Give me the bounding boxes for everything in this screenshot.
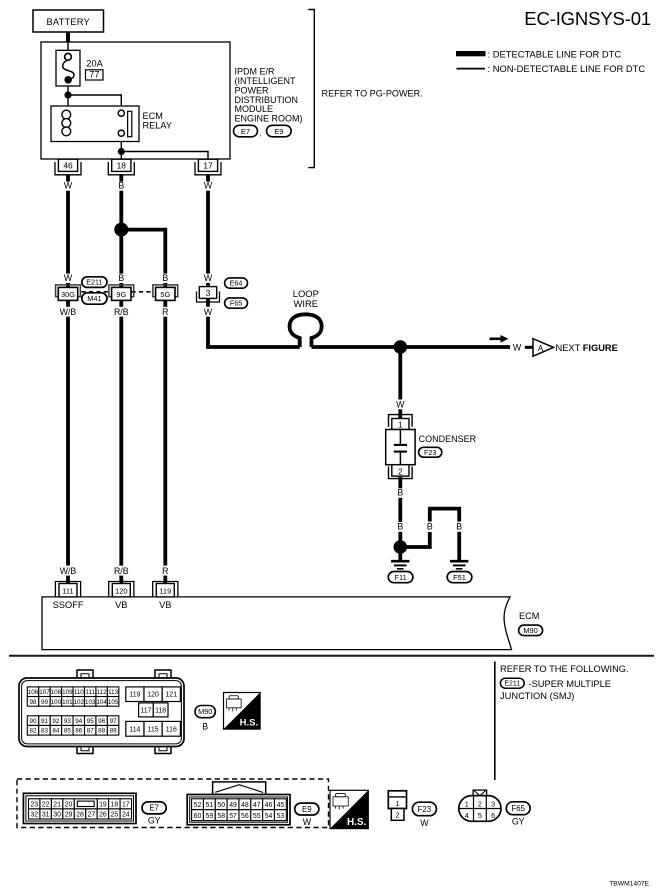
figure reference triangle A — [533, 339, 554, 357]
ground F11 — [391, 561, 409, 569]
wire B pin18 to junction — [119, 175, 123, 182]
svg-text:1: 1 — [395, 801, 399, 808]
svg-text:W/B: W/B — [60, 566, 77, 576]
svg-text:W: W — [396, 399, 405, 409]
svg-text:105: 105 — [108, 699, 119, 706]
wire B branch to ground F51 — [404, 532, 430, 547]
svg-text:55: 55 — [253, 813, 261, 820]
svg-text:B: B — [202, 722, 208, 732]
svg-text:31: 31 — [42, 812, 50, 819]
svg-text:A: A — [538, 344, 544, 353]
svg-text:WIRE: WIRE — [294, 298, 318, 309]
svg-text:95: 95 — [87, 718, 95, 725]
svg-text:B: B — [427, 521, 433, 531]
svg-text:100: 100 — [51, 699, 62, 706]
svg-text:120: 120 — [115, 586, 128, 595]
dashed connector group box — [17, 779, 329, 828]
svg-text:W: W — [420, 818, 429, 828]
svg-text:60: 60 — [194, 813, 202, 820]
svg-text:119: 119 — [159, 586, 171, 595]
svg-text:57: 57 — [229, 813, 237, 820]
svg-text:83: 83 — [41, 728, 49, 735]
svg-text:109: 109 — [62, 689, 73, 696]
wire B condenser pin2 to ground junction — [398, 477, 402, 488]
svg-text:E7: E7 — [149, 804, 159, 813]
connector ref F23 pinout — [412, 802, 436, 816]
svg-text:104: 104 — [96, 699, 107, 706]
svg-text:111: 111 — [62, 586, 73, 595]
connector ref E7 pinout — [142, 802, 166, 814]
svg-text:GY: GY — [512, 817, 525, 827]
svg-text:25: 25 — [111, 812, 119, 819]
view mark H.S. — [330, 790, 368, 828]
svg-text:RELAY: RELAY — [143, 120, 172, 130]
condenser pin 2 — [389, 465, 413, 479]
svg-text:20A: 20A — [86, 58, 103, 68]
svg-text:F65: F65 — [511, 804, 525, 813]
connector terminal 3 — [197, 287, 220, 302]
arrow to next figure — [490, 335, 509, 343]
wire B branch junction to SMJ 5G — [121, 230, 165, 274]
wire R 5G to ECM pin 119 — [163, 317, 167, 566]
wire W/B 30G to ECM pin 111 — [66, 317, 70, 566]
connector E9 pinout — [187, 782, 290, 825]
svg-text:F23: F23 — [424, 448, 436, 457]
svg-text:87: 87 — [87, 728, 95, 735]
svg-text:: NON-DETECTABLE LINE FOR DTC: : NON-DETECTABLE LINE FOR DTC — [488, 63, 646, 74]
ECM connector M90 pinout — [19, 670, 184, 754]
connector ref E64 — [225, 278, 248, 288]
svg-text:84: 84 — [52, 728, 60, 735]
svg-text:22: 22 — [42, 802, 50, 809]
svg-text:88: 88 — [98, 728, 106, 735]
condenser F23 body — [386, 430, 415, 465]
svg-text:B: B — [397, 487, 403, 497]
svg-text:30: 30 — [53, 812, 61, 819]
svg-text:-SUPER MULTIPLE: -SUPER MULTIPLE — [529, 679, 611, 689]
svg-text:59: 59 — [206, 813, 214, 820]
legend detectable line sample — [456, 51, 486, 56]
SMJ connector 9G — [109, 285, 134, 301]
svg-text:BATTERY: BATTERY — [46, 17, 89, 27]
svg-text:26: 26 — [99, 812, 107, 819]
svg-text:1: 1 — [465, 799, 469, 808]
fuse 20A 77 — [56, 50, 80, 86]
svg-text:W: W — [513, 343, 522, 353]
svg-text:9G: 9G — [116, 290, 126, 299]
wire W junction to condenser pin1 — [398, 353, 402, 399]
svg-text:W: W — [204, 273, 213, 283]
column divider — [494, 662, 496, 781]
connector stub to figure A — [525, 346, 533, 349]
svg-text:TBWM1407E: TBWM1407E — [609, 880, 649, 887]
svg-text:W: W — [303, 817, 312, 827]
battery — [33, 10, 104, 32]
svg-text:112: 112 — [97, 689, 108, 696]
svg-text:REFER TO PG-POWER.: REFER TO PG-POWER. — [322, 88, 423, 98]
junction node above ground F11 — [394, 540, 408, 554]
svg-text:18: 18 — [111, 802, 119, 809]
svg-text:W: W — [204, 307, 213, 317]
connector ref E211 — [82, 277, 107, 288]
IPDM E/R box — [41, 42, 230, 159]
svg-text:82: 82 — [30, 728, 38, 735]
connector E7 pinout — [23, 793, 136, 823]
svg-text:B: B — [397, 521, 403, 531]
svg-text:99: 99 — [41, 699, 49, 706]
svg-text:2: 2 — [398, 467, 403, 476]
svg-text:92: 92 — [52, 718, 60, 725]
svg-text:M90: M90 — [523, 626, 537, 635]
junction node below fuse — [64, 91, 71, 98]
svg-text:45: 45 — [277, 802, 285, 809]
svg-text:H.S.: H.S. — [240, 718, 258, 729]
svg-text:F23: F23 — [418, 805, 431, 814]
svg-text:B: B — [118, 273, 124, 283]
svg-text:48: 48 — [241, 802, 249, 809]
svg-text:32: 32 — [30, 812, 38, 819]
svg-text:R/B: R/B — [114, 307, 129, 317]
svg-text:97: 97 — [110, 718, 118, 725]
svg-text:119: 119 — [129, 692, 140, 699]
svg-text:E211: E211 — [504, 681, 520, 688]
wire W pin17 down — [206, 175, 210, 182]
svg-text:56: 56 — [241, 813, 249, 820]
SMJ connector 5G — [153, 285, 178, 301]
svg-text:107: 107 — [39, 689, 50, 696]
wire W battery to IPDM — [66, 32, 70, 43]
svg-text:94: 94 — [75, 718, 83, 725]
loop wire symbol — [290, 314, 322, 347]
svg-text:93: 93 — [64, 718, 72, 725]
svg-text:103: 103 — [85, 699, 96, 706]
svg-text:106: 106 — [28, 689, 39, 696]
svg-text:118: 118 — [155, 707, 166, 714]
svg-text:5G: 5G — [160, 290, 170, 299]
connector terminal 46 — [55, 159, 81, 175]
svg-text:2: 2 — [478, 799, 482, 808]
svg-text:W: W — [64, 273, 73, 283]
svg-text:51: 51 — [206, 802, 214, 809]
connector ref F65 — [225, 298, 248, 308]
svg-text:E64: E64 — [230, 279, 243, 288]
connector ref E7 — [234, 125, 258, 137]
svg-text:86: 86 — [75, 728, 83, 735]
svg-text:120: 120 — [147, 692, 159, 699]
connector F65 pinout — [459, 790, 501, 821]
svg-text:W/B: W/B — [60, 307, 77, 317]
separator line — [9, 655, 654, 657]
svg-text:115: 115 — [148, 726, 159, 733]
connector terminal 18 — [108, 159, 134, 175]
wire W pin46 to SMJ 30G — [66, 175, 70, 182]
svg-text:,: , — [260, 128, 262, 138]
svg-text:M90: M90 — [198, 707, 212, 716]
connector ref E9 pinout — [295, 803, 319, 815]
junction node on wire B — [114, 223, 128, 237]
svg-text:90: 90 — [30, 718, 38, 725]
junction node to condenser — [394, 340, 408, 354]
svg-text:17: 17 — [203, 161, 213, 171]
svg-text:46: 46 — [63, 161, 73, 171]
svg-text:NEXT FIGURE: NEXT FIGURE — [556, 343, 618, 353]
svg-text:F11: F11 — [395, 573, 407, 582]
connector ref E211 SMJ note — [500, 678, 524, 688]
svg-text:21: 21 — [53, 802, 61, 809]
legend non-detectable line sample — [457, 68, 486, 70]
svg-text:1: 1 — [398, 420, 403, 429]
connector ref E9 — [267, 125, 292, 137]
svg-text:EC-IGNSYS-01: EC-IGNSYS-01 — [524, 8, 651, 29]
svg-text:18: 18 — [117, 161, 127, 171]
svg-text:R: R — [162, 307, 168, 317]
svg-text:REFER TO THE FOLLOWING.: REFER TO THE FOLLOWING. — [500, 664, 629, 674]
svg-text:116: 116 — [166, 726, 177, 733]
wire B junction to ground F11 — [398, 553, 402, 561]
svg-text:49: 49 — [229, 802, 237, 809]
svg-text:B: B — [162, 273, 168, 283]
svg-text:F51: F51 — [453, 573, 466, 582]
svg-text:SSOFF: SSOFF — [53, 600, 84, 610]
svg-text:110: 110 — [74, 689, 85, 696]
fuse number 77 — [86, 70, 104, 80]
junction node below relay contact — [118, 148, 125, 155]
condenser pin 1 — [389, 415, 413, 430]
svg-text:19: 19 — [99, 802, 107, 809]
ECM box — [42, 597, 512, 650]
svg-text:20: 20 — [65, 802, 73, 809]
svg-text:27: 27 — [88, 812, 96, 819]
svg-text:113: 113 — [108, 689, 119, 696]
svg-text:E9: E9 — [274, 127, 283, 136]
svg-text:54: 54 — [265, 813, 273, 820]
svg-text:30G: 30G — [61, 290, 75, 299]
svg-text:2: 2 — [396, 812, 400, 819]
svg-text:H.S.: H.S. — [347, 817, 367, 828]
svg-text:6: 6 — [491, 811, 495, 820]
svg-text:5: 5 — [478, 811, 482, 820]
svg-text:77: 77 — [89, 70, 99, 80]
svg-text:: DETECTABLE LINE FOR DTC: : DETECTABLE LINE FOR DTC — [488, 48, 622, 59]
svg-text:98: 98 — [30, 699, 38, 706]
svg-text:F65: F65 — [230, 299, 242, 308]
connector terminal 111 — [55, 582, 80, 597]
ground ref F11 — [388, 572, 413, 583]
wire W connector3 to loop horizontal run — [208, 317, 300, 347]
connector ref M90 — [519, 625, 543, 636]
svg-text:W: W — [64, 181, 73, 191]
svg-text:85: 85 — [64, 728, 72, 735]
connector terminal 120 — [109, 582, 134, 597]
svg-text:B: B — [456, 521, 462, 531]
svg-text:E211: E211 — [86, 278, 102, 287]
svg-text:53: 53 — [277, 813, 285, 820]
svg-text:28: 28 — [76, 812, 84, 819]
svg-text:47: 47 — [253, 802, 261, 809]
svg-text:3: 3 — [491, 799, 495, 808]
svg-text:108: 108 — [51, 689, 62, 696]
svg-text:102: 102 — [74, 699, 85, 706]
svg-text:E7: E7 — [241, 127, 250, 136]
connector ref M90 pinout — [195, 706, 215, 718]
svg-text:ECM: ECM — [519, 611, 539, 621]
svg-text:89: 89 — [110, 728, 118, 735]
view mark H.S. — [224, 693, 261, 730]
svg-text:W: W — [204, 181, 213, 191]
svg-text:117: 117 — [140, 707, 151, 714]
svg-text:91: 91 — [41, 718, 49, 725]
svg-text:58: 58 — [217, 813, 225, 820]
svg-text:23: 23 — [30, 802, 38, 809]
svg-text:JUNCTION (SMJ): JUNCTION (SMJ) — [500, 691, 574, 701]
svg-text:VB: VB — [159, 600, 171, 610]
bracket refer to PG-POWER — [308, 10, 314, 168]
connector ref F23 — [419, 447, 442, 457]
svg-text:50: 50 — [217, 802, 225, 809]
svg-text:GY: GY — [148, 816, 161, 826]
wire R/B 9G to ECM pin 120 — [119, 317, 123, 566]
svg-text:R: R — [162, 566, 168, 576]
svg-text:B: B — [118, 181, 124, 191]
ECM relay — [51, 106, 139, 142]
svg-text:29: 29 — [65, 812, 73, 819]
connector F23 pinout — [388, 791, 406, 821]
svg-text:111: 111 — [85, 689, 95, 696]
svg-text:52: 52 — [194, 802, 202, 809]
svg-text:R/B: R/B — [114, 566, 129, 576]
svg-text:4: 4 — [465, 811, 469, 820]
wire W loop to next-figure arrow — [312, 345, 511, 349]
svg-text:46: 46 — [265, 802, 273, 809]
svg-text:ENGINE ROOM): ENGINE ROOM) — [235, 113, 303, 123]
ground ref F51 — [447, 572, 472, 583]
svg-text:101: 101 — [62, 699, 73, 706]
wire B junction to SMJ 9G — [119, 283, 123, 307]
svg-text:96: 96 — [98, 718, 106, 725]
svg-text:M41: M41 — [87, 294, 101, 303]
svg-text:CONDENSER: CONDENSER — [419, 434, 477, 444]
svg-text:E9: E9 — [302, 805, 312, 814]
svg-text:ECM: ECM — [143, 111, 163, 121]
connector ref M41 — [82, 293, 107, 304]
SMJ dashed link line — [82, 291, 112, 293]
svg-text:3: 3 — [206, 288, 211, 298]
svg-text:17: 17 — [122, 802, 130, 809]
wire fuse to relay coil and contact (thin internal) — [68, 42, 208, 159]
ground F51 — [450, 561, 468, 569]
connector ref F65 pinout — [506, 802, 530, 815]
connector terminal 119 — [153, 582, 178, 597]
SMJ connector 30G — [56, 285, 81, 301]
svg-text:24: 24 — [122, 812, 130, 819]
svg-text:121: 121 — [166, 692, 178, 699]
svg-text:114: 114 — [129, 726, 140, 733]
connector terminal 17 — [195, 159, 221, 175]
svg-text:VB: VB — [115, 600, 127, 610]
